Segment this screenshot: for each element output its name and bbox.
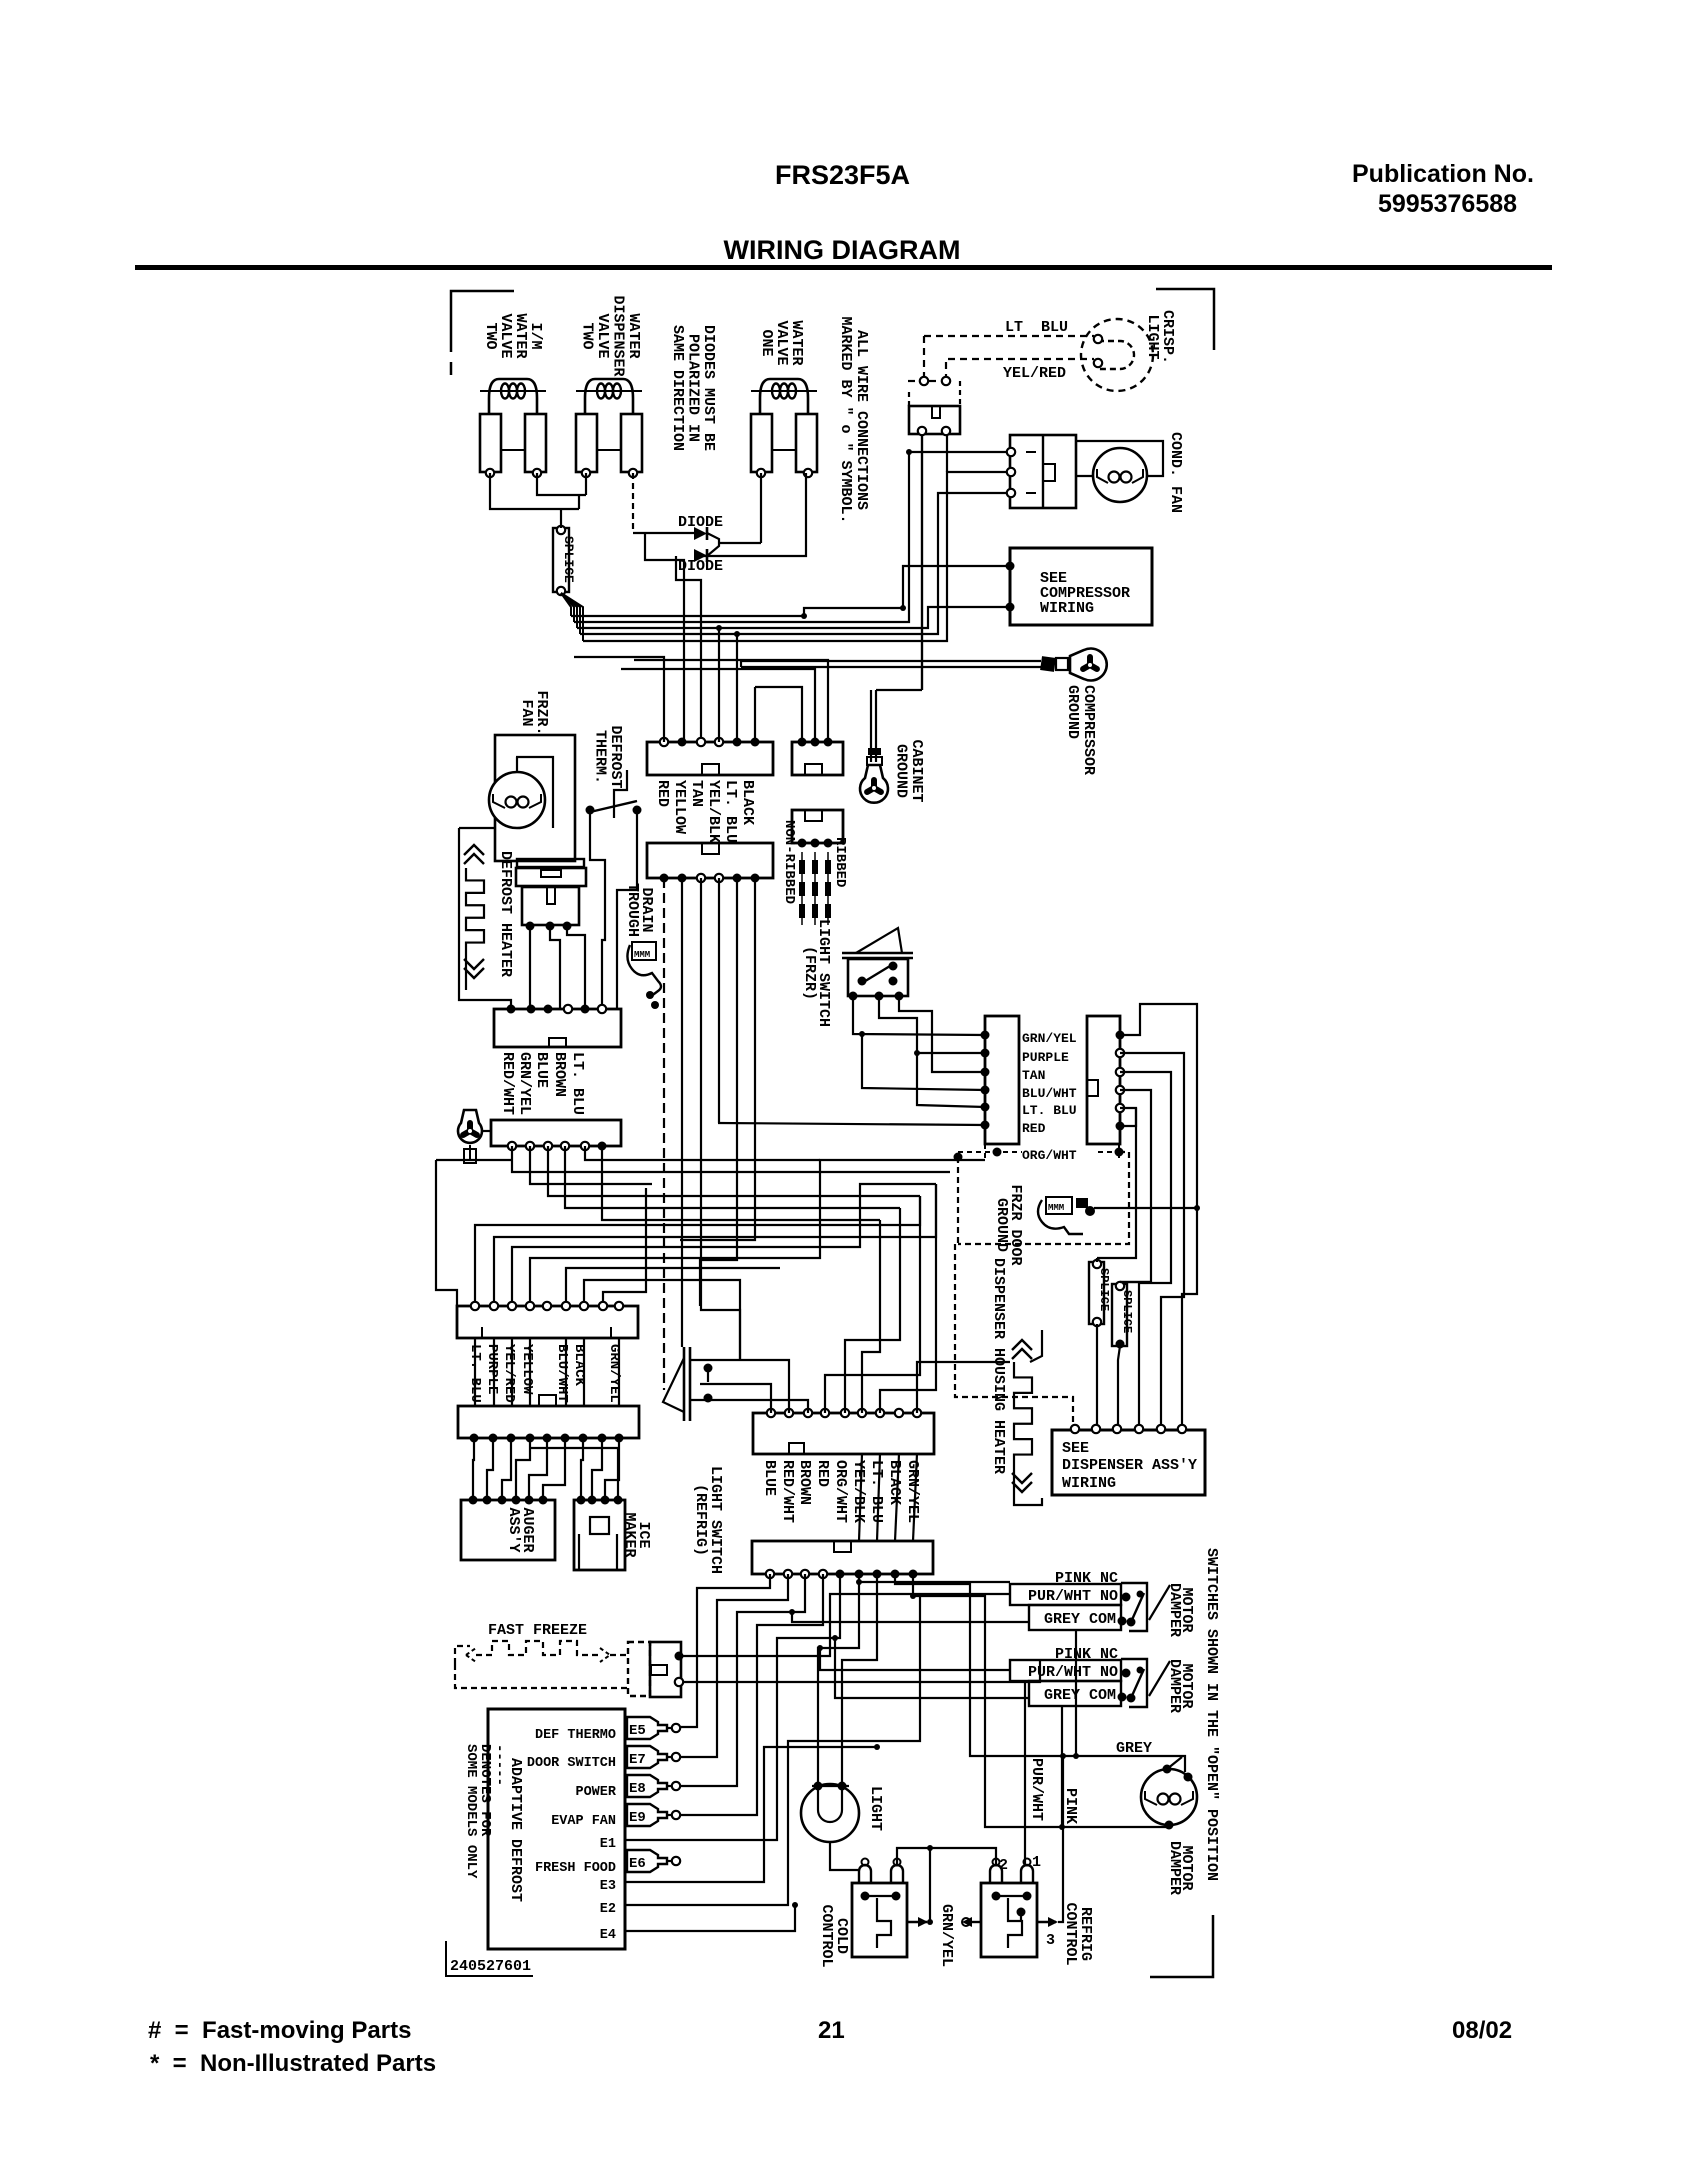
label some models only bbox=[463, 1744, 507, 1879]
wire switch pin3 bbox=[899, 996, 985, 1072]
svg-text:ADAPTIVE DEFROST: ADAPTIVE DEFROST bbox=[507, 1758, 524, 1902]
wire row com1 bbox=[789, 1609, 1029, 1622]
label ribbed bbox=[832, 837, 848, 887]
svg-text:DAMPER: DAMPER bbox=[1166, 1583, 1183, 1637]
splice S3 bbox=[1112, 1282, 1134, 1349]
svg-text:DEFROST HEATER: DEFROST HEATER bbox=[497, 851, 514, 977]
svg-text:E4: E4 bbox=[600, 1928, 616, 1943]
svg-text:PURPLE: PURPLE bbox=[1022, 1050, 1069, 1065]
wire valve2 left pin bbox=[553, 473, 586, 528]
fast freeze connector bbox=[628, 1642, 684, 1697]
wire connB feeds bbox=[621, 660, 828, 742]
mesh horizontal 3 bbox=[565, 1146, 900, 1220]
damper motor switch 1 bbox=[1010, 1570, 1170, 1631]
wire bc p5 bbox=[660, 1574, 840, 1840]
terminal E2 bbox=[600, 1593, 920, 1917]
mesh stair 7 bbox=[603, 1188, 646, 1306]
wire pur/wht bbox=[1025, 1682, 1045, 1866]
svg-text:GROUND: GROUND bbox=[1064, 685, 1081, 739]
wire splice S3 down bbox=[1118, 1282, 1151, 1425]
svg-text:5995376588: 5995376588 bbox=[1378, 190, 1517, 218]
wire splice S2 down bbox=[1096, 1258, 1098, 1425]
compressor ground lug bbox=[1070, 648, 1107, 680]
svg-text:LT. BLU: LT. BLU bbox=[1022, 1103, 1077, 1118]
svg-text:ORG/WHT: ORG/WHT bbox=[832, 1460, 849, 1523]
svg-text:RED: RED bbox=[654, 780, 671, 807]
wire conn A pin6 feed bbox=[754, 687, 756, 742]
frzr door ground symbol bbox=[1038, 1197, 1095, 1234]
svg-text:FAN: FAN bbox=[518, 699, 535, 726]
wire conn A pin1 feed bbox=[574, 657, 664, 742]
svg-text:LIGHT: LIGHT bbox=[1144, 314, 1161, 359]
svg-text:GROUND: GROUND bbox=[993, 1198, 1010, 1252]
svg-text:LT BLU: LT BLU bbox=[1005, 319, 1068, 336]
mesh stair 4 bbox=[530, 1196, 920, 1306]
wire bc p7 bbox=[842, 1574, 877, 1786]
svg-text:LT. BLU: LT. BLU bbox=[722, 780, 739, 843]
svg-text:GROUND: GROUND bbox=[893, 744, 910, 798]
label damper motor 1 bbox=[1166, 1583, 1195, 1637]
wire pair pin5 feed bbox=[914, 1050, 985, 1107]
svg-text:SPLICE: SPLICE bbox=[1120, 1290, 1134, 1333]
wire valve1 left pin bbox=[490, 473, 553, 509]
auger pins bbox=[469, 1496, 548, 1505]
svg-text:CONTROL: CONTROL bbox=[1062, 1902, 1079, 1965]
trunk wire 6 bbox=[1120, 1108, 1136, 1126]
svg-text:BLU/WHT: BLU/WHT bbox=[1022, 1086, 1077, 1101]
label defrost heater bbox=[497, 851, 514, 977]
wire relay pins down bbox=[922, 435, 947, 690]
svg-text:PUR/WHT NO: PUR/WHT NO bbox=[1028, 1588, 1118, 1605]
wire row pinknc2 bbox=[681, 1660, 1040, 1682]
wire conn A pin4 feed bbox=[716, 625, 722, 742]
svg-text:PINK: PINK bbox=[1062, 1788, 1079, 1824]
svg-text:SOME MODELS ONLY: SOME MODELS ONLY bbox=[463, 1744, 479, 1879]
ice maker box bbox=[574, 1500, 625, 1570]
wiring diagram heading bbox=[724, 235, 961, 265]
wire row com2 bbox=[832, 1635, 1029, 1698]
wire bc p2 bbox=[681, 1574, 788, 1757]
svg-text:FRS23F5A: FRS23F5A bbox=[775, 160, 910, 190]
label defrost therm bbox=[592, 725, 625, 788]
wire valve2 right pin dashed bbox=[633, 473, 694, 533]
connector4 pins bbox=[470, 1434, 624, 1443]
svg-text:TAN: TAN bbox=[688, 780, 705, 807]
footer legend fast-moving bbox=[148, 2017, 411, 2044]
wires connector4 to ice maker bbox=[530, 1438, 619, 1500]
svg-text:YELLOW: YELLOW bbox=[519, 1344, 535, 1395]
svg-text:GREY COM: GREY COM bbox=[1044, 1687, 1116, 1704]
svg-text:# = Fast-moving Parts: # = Fast-moving Parts bbox=[148, 2017, 411, 2044]
connector B body 2 bbox=[792, 810, 843, 843]
svg-text:RED/WHT: RED/WHT bbox=[779, 1460, 796, 1523]
trunk wire 3 bbox=[1120, 1072, 1171, 1425]
light switch frzr plate bbox=[842, 928, 913, 958]
wires connector3 to 4 bbox=[475, 1338, 619, 1406]
label light switch frzr bbox=[801, 919, 832, 1027]
cabinet ground lug bbox=[860, 765, 888, 803]
pair connector left box bbox=[985, 1016, 1019, 1144]
connector3 pins bbox=[471, 1302, 623, 1310]
svg-text:YELLOW: YELLOW bbox=[671, 780, 688, 834]
mesh stair 6 bbox=[584, 1280, 740, 1360]
terminal E5 bbox=[535, 1717, 680, 1743]
svg-text:BLACK: BLACK bbox=[886, 1460, 903, 1505]
wire bc p4 bbox=[681, 1574, 823, 1815]
bottom connector box bbox=[752, 1541, 933, 1574]
svg-text:GRN/YEL: GRN/YEL bbox=[938, 1904, 955, 1967]
see compressor wiring box bbox=[1006, 548, 1153, 625]
label auger assy bbox=[505, 1507, 536, 1552]
wire pair pin4 feed bbox=[859, 1031, 985, 1090]
drain trough symbol bbox=[627, 942, 661, 1009]
pair connector right pins bbox=[1116, 1031, 1125, 1131]
svg-text:E8: E8 bbox=[629, 1781, 646, 1797]
svg-text:LT. BLU: LT. BLU bbox=[868, 1460, 885, 1523]
wire fan to defrost bbox=[516, 757, 518, 772]
svg-text:WIRING: WIRING bbox=[1040, 600, 1094, 617]
svg-text:WATER: WATER bbox=[625, 313, 642, 358]
svg-text:YEL/RED: YEL/RED bbox=[501, 1344, 517, 1403]
svg-text:YEL/BLK: YEL/BLK bbox=[705, 780, 722, 843]
connector B pins top bbox=[798, 738, 833, 747]
wire frzr door ground bbox=[1094, 1205, 1200, 1211]
part number 240527601 bbox=[446, 1941, 533, 1976]
svg-text:WIRING DIAGRAM: WIRING DIAGRAM bbox=[724, 235, 961, 265]
connector B box bbox=[792, 742, 843, 775]
cold control right terminal bbox=[907, 1917, 928, 1927]
label cabinet ground bbox=[893, 739, 926, 802]
svg-text:BLACK: BLACK bbox=[739, 780, 756, 825]
connector C box bbox=[494, 1009, 621, 1047]
mesh verticals from connA2 bbox=[664, 878, 755, 1390]
wire conn A pin5 feed bbox=[734, 631, 740, 742]
svg-text:Publication No.: Publication No. bbox=[1352, 160, 1534, 188]
bus line 1 bbox=[571, 566, 1010, 616]
svg-text:1: 1 bbox=[1032, 1854, 1041, 1871]
svg-text:TAN: TAN bbox=[1022, 1068, 1045, 1083]
label light switch refrig bbox=[692, 1466, 724, 1574]
svg-text:SAME DIRECTION: SAME DIRECTION bbox=[669, 325, 686, 451]
wire valve1 right pin bbox=[537, 473, 586, 495]
auger assy box bbox=[461, 1500, 555, 1560]
svg-text:BLUE: BLUE bbox=[533, 1052, 550, 1088]
wire YEL/RED dashed bbox=[946, 359, 1094, 382]
wires connector4 to auger bbox=[473, 1438, 565, 1500]
trunk wire 5 bbox=[1097, 1108, 1136, 1258]
bus line 5 bbox=[583, 472, 1011, 641]
svg-text:WIRING: WIRING bbox=[1062, 1475, 1116, 1492]
label crisper light bbox=[1144, 310, 1176, 364]
svg-text:MARKED BY " o " SYMBOL.: MARKED BY " o " SYMBOL. bbox=[837, 316, 854, 523]
svg-text:DIODES MUST BE: DIODES MUST BE bbox=[700, 325, 717, 451]
svg-text:FRESH FOOD: FRESH FOOD bbox=[535, 1861, 616, 1876]
label drain trough bbox=[624, 883, 655, 937]
mesh horizontal 1 bbox=[512, 1146, 680, 1172]
damper motor bbox=[1141, 1765, 1197, 1830]
wire heater bottom bbox=[1014, 1470, 1042, 1505]
svg-text:E1: E1 bbox=[600, 1837, 616, 1852]
svg-text:SEE: SEE bbox=[1062, 1440, 1089, 1457]
svg-text:E2: E2 bbox=[600, 1902, 616, 1917]
dispenser housing heater element bbox=[1012, 1330, 1042, 1492]
frzr fan circle bbox=[489, 772, 545, 828]
page number 21 bbox=[818, 2017, 845, 2044]
wire pink bbox=[1059, 1706, 1079, 1830]
terminal E7 bbox=[527, 1746, 680, 1771]
fast freeze heater dashed bbox=[455, 1641, 628, 1688]
svg-text:THERM.: THERM. bbox=[592, 730, 609, 784]
light switch frzr pins bbox=[849, 992, 904, 1001]
diode D2 bbox=[678, 549, 723, 575]
svg-text:RED: RED bbox=[814, 1460, 831, 1487]
diode D1 bbox=[678, 514, 723, 540]
wire defrost heater to pins bbox=[530, 926, 585, 1009]
trunk wire 4 bbox=[1120, 1090, 1151, 1282]
svg-text:BLUE: BLUE bbox=[761, 1460, 778, 1496]
crisper light bbox=[1081, 319, 1153, 391]
solenoid valve I/M water valve two bbox=[480, 379, 546, 477]
solenoid valve water valve one bbox=[751, 379, 817, 477]
cold control box bbox=[852, 1859, 907, 1958]
svg-text:RED: RED bbox=[1022, 1121, 1046, 1136]
label cond fan bbox=[1167, 432, 1184, 513]
footer legend non-illustrated bbox=[150, 2050, 436, 2077]
org/wht dashed row bbox=[954, 1144, 1124, 1162]
svg-text:ORG/WHT: ORG/WHT bbox=[1022, 1148, 1077, 1163]
wire valve3 left pin to diode bbox=[760, 473, 762, 543]
wire switch pin2 bbox=[879, 996, 985, 1053]
labels right connector wires bbox=[761, 1460, 921, 1523]
svg-text:EVAP FAN: EVAP FAN bbox=[551, 1814, 616, 1829]
label I/M water valve two bbox=[482, 313, 544, 358]
wire pair pin6 feed bbox=[718, 1123, 985, 1125]
svg-text:ONE: ONE bbox=[758, 329, 775, 356]
svg-text:FAST FREEZE: FAST FREEZE bbox=[488, 1622, 587, 1639]
ice maker pins bbox=[577, 1496, 623, 1505]
svg-text:MMM: MMM bbox=[1048, 1203, 1064, 1213]
light bulb bbox=[801, 1782, 859, 1871]
left loop wires bbox=[436, 1160, 512, 1306]
svg-text:SPLICE: SPLICE bbox=[561, 536, 576, 583]
cond fan circle bbox=[1093, 448, 1147, 502]
svg-text:RIBBED: RIBBED bbox=[832, 837, 848, 887]
wire bc p6 bbox=[818, 1574, 859, 1782]
wire cold stem2 to refrig stem1 bbox=[897, 1848, 996, 1866]
label non-ribbed bbox=[781, 820, 797, 904]
date 08/02 bbox=[1452, 2017, 1512, 2044]
svg-text:3: 3 bbox=[1046, 1932, 1055, 1949]
label switches shown bbox=[1203, 1548, 1220, 1881]
pair connector right box bbox=[1087, 1016, 1120, 1144]
svg-text:GREY COM: GREY COM bbox=[1044, 1611, 1116, 1628]
splice S1 bbox=[553, 526, 576, 595]
publication no bbox=[1352, 160, 1534, 218]
bus line 2 bbox=[574, 452, 1011, 622]
svg-text:CABINET: CABINET bbox=[908, 739, 925, 802]
svg-text:E6: E6 bbox=[629, 1856, 646, 1872]
terminal E3 bbox=[600, 1879, 724, 1894]
cond fan motor pins bbox=[1007, 448, 1015, 497]
svg-text:2: 2 bbox=[999, 1857, 1008, 1874]
labels connector3 wires bbox=[467, 1344, 622, 1403]
wire row pinknc1 bbox=[856, 1579, 1010, 1585]
ribbed wires bbox=[802, 852, 828, 925]
svg-text:POLARIZED IN: POLARIZED IN bbox=[685, 334, 702, 442]
terminal E1 bbox=[600, 1837, 660, 1852]
svg-text:DISPENSER: DISPENSER bbox=[610, 295, 627, 376]
wire LT BLU dashed bbox=[924, 319, 1094, 336]
svg-text:GRN/YEL: GRN/YEL bbox=[904, 1460, 921, 1523]
wire org/wht dashed left bbox=[955, 1157, 1073, 1425]
svg-text:DISPENSER ASS'Y: DISPENSER ASS'Y bbox=[1062, 1457, 1197, 1474]
wire bc p3 bbox=[681, 1574, 805, 1786]
wire E3 route bbox=[724, 1744, 880, 1882]
wires right connector up bbox=[700, 1172, 1010, 1413]
connector D box bbox=[491, 1120, 621, 1146]
label water dispenser valve two bbox=[579, 295, 643, 376]
svg-text:DOOR SWITCH: DOOR SWITCH bbox=[527, 1756, 616, 1771]
svg-text:TWO: TWO bbox=[579, 322, 596, 349]
svg-text:DEFROST: DEFROST bbox=[607, 725, 624, 788]
defrost assembly bbox=[516, 859, 586, 931]
connector D ground lug bbox=[458, 1110, 491, 1163]
frame corner top-right bbox=[1156, 289, 1214, 350]
mesh stair 1 bbox=[475, 1196, 920, 1306]
label frzr fan bbox=[518, 690, 550, 735]
connector C pins bbox=[507, 1005, 607, 1014]
svg-text:DEF THERMO: DEF THERMO bbox=[535, 1728, 616, 1743]
solenoid valve water dispenser valve two bbox=[576, 379, 642, 477]
label refrig control bbox=[1062, 1902, 1094, 1965]
svg-text:DISPENSER HOUSING HEATER: DISPENSER HOUSING HEATER bbox=[990, 1258, 1007, 1474]
light switch frzr body bbox=[848, 959, 908, 996]
mesh long horizontals bbox=[680, 1171, 950, 1173]
label fast freeze bbox=[488, 1622, 587, 1639]
connector A pins bbox=[660, 738, 760, 747]
svg-text:08/02: 08/02 bbox=[1452, 2017, 1512, 2044]
bus line 3 bbox=[577, 607, 1010, 628]
connector A2 box bbox=[647, 843, 773, 878]
wire org/wht dashed right bbox=[958, 1152, 1129, 1244]
wire crisper left dashed bbox=[908, 336, 950, 385]
label adaptive defrost bbox=[507, 1758, 524, 1902]
label dispenser housing heater bbox=[990, 1258, 1007, 1474]
label ice maker bbox=[621, 1512, 652, 1557]
label water valve one bbox=[758, 320, 805, 365]
terminal E6 bbox=[535, 1850, 680, 1876]
connector B pins bottom bbox=[798, 839, 833, 848]
svg-text:SPLICE: SPLICE bbox=[1097, 1268, 1111, 1311]
connector A2 pins bbox=[660, 874, 760, 883]
labels connector C wires bbox=[499, 1052, 586, 1115]
terminal E9 bbox=[551, 1804, 680, 1829]
svg-text:E9: E9 bbox=[629, 1810, 646, 1826]
terminal E4 bbox=[600, 1902, 798, 1943]
defrost therm leader bbox=[614, 770, 627, 818]
svg-text:YEL/RED: YEL/RED bbox=[1003, 365, 1066, 382]
wire row no1 bbox=[681, 1594, 1010, 1656]
svg-text:(REFRIG): (REFRIG) bbox=[692, 1484, 709, 1556]
frame corner top-left bbox=[451, 291, 514, 375]
bus line 4 bbox=[580, 493, 1011, 634]
connector A box bbox=[647, 742, 773, 775]
bottom connector pins bbox=[766, 1570, 918, 1579]
svg-text:NON-RIBBED: NON-RIBBED bbox=[781, 820, 797, 904]
wire diode junction bbox=[707, 533, 761, 556]
label compressor ground bbox=[1064, 685, 1097, 775]
wire row no2 bbox=[817, 1645, 1010, 1670]
svg-text:LT. BLU: LT. BLU bbox=[569, 1052, 586, 1115]
label damper motor 2 bbox=[1166, 1659, 1195, 1713]
svg-text:YEL/BLK: YEL/BLK bbox=[850, 1460, 867, 1523]
label damper motor 3 bbox=[1166, 1841, 1195, 1895]
defrost therm switch bbox=[586, 801, 642, 815]
svg-text:COND. FAN: COND. FAN bbox=[1167, 432, 1184, 513]
adaptive defrost box bbox=[488, 1709, 625, 1949]
svg-text:(FRZR): (FRZR) bbox=[801, 946, 818, 1000]
svg-text:E7: E7 bbox=[629, 1752, 646, 1768]
wire bc p8 bbox=[895, 1574, 1077, 1756]
wire grey bbox=[1077, 1740, 1185, 1772]
svg-text:E3: E3 bbox=[600, 1879, 616, 1894]
compressor ground wire bbox=[741, 656, 1068, 672]
svg-text:BROWN: BROWN bbox=[551, 1052, 568, 1097]
svg-text:E5: E5 bbox=[629, 1723, 646, 1739]
svg-text:BROWN: BROWN bbox=[796, 1460, 813, 1505]
svg-text:GREY: GREY bbox=[1116, 1740, 1152, 1757]
connector3 box bbox=[457, 1306, 638, 1338]
wire diode D2 riser bbox=[676, 556, 701, 742]
svg-text:21: 21 bbox=[818, 2017, 845, 2044]
svg-text:TROUGH: TROUGH bbox=[624, 883, 641, 937]
terminal E8 bbox=[575, 1775, 680, 1800]
cond fan motor box bbox=[1010, 435, 1076, 508]
junction dots bus bbox=[801, 449, 912, 619]
right connector box bbox=[753, 1413, 934, 1454]
svg-text:ALL WIRE CONNECTIONS: ALL WIRE CONNECTIONS bbox=[853, 330, 870, 510]
mesh horizontal 2 bbox=[530, 1146, 985, 1196]
refrig terminal numbers bbox=[999, 1854, 1055, 1949]
label cold control bbox=[818, 1904, 850, 1967]
wire pink riser bbox=[1060, 1753, 1066, 1841]
defrost heater bottom wire bbox=[459, 955, 511, 1009]
defrost heater element bbox=[459, 828, 484, 990]
wires into bottom connector top bbox=[859, 1454, 917, 1541]
svg-text:MAKER: MAKER bbox=[621, 1512, 638, 1557]
refrig control box bbox=[981, 1859, 1037, 1958]
svg-text:* = Non-Illustrated Parts: * = Non-Illustrated Parts bbox=[150, 2050, 436, 2077]
connector D pins bbox=[508, 1142, 607, 1151]
light switch refrig body bbox=[690, 1360, 740, 1403]
see dispenser pins bbox=[1071, 1425, 1186, 1433]
mesh stair 3 bbox=[512, 1184, 936, 1306]
svg-text:BLU/WHT: BLU/WHT bbox=[554, 1344, 570, 1403]
splice S2 bbox=[1089, 1260, 1111, 1326]
frzr fan enclosure bbox=[495, 735, 575, 861]
wire valve3 right pin down bbox=[694, 473, 806, 556]
connector4 box bbox=[458, 1395, 639, 1438]
note all wire connections marked bbox=[837, 316, 870, 523]
labels connector A wires bbox=[654, 780, 756, 843]
frzr fan loop bbox=[459, 827, 495, 829]
svg-text:COMPRESSOR: COMPRESSOR bbox=[1080, 685, 1097, 775]
title FRS23F5A bbox=[775, 160, 910, 190]
trunk wire 1 bbox=[1120, 1004, 1197, 1425]
see dispenser assy wiring box bbox=[1052, 1430, 1205, 1495]
cabinet ground wire bbox=[867, 434, 922, 765]
wire therm to connC bbox=[590, 810, 637, 1009]
